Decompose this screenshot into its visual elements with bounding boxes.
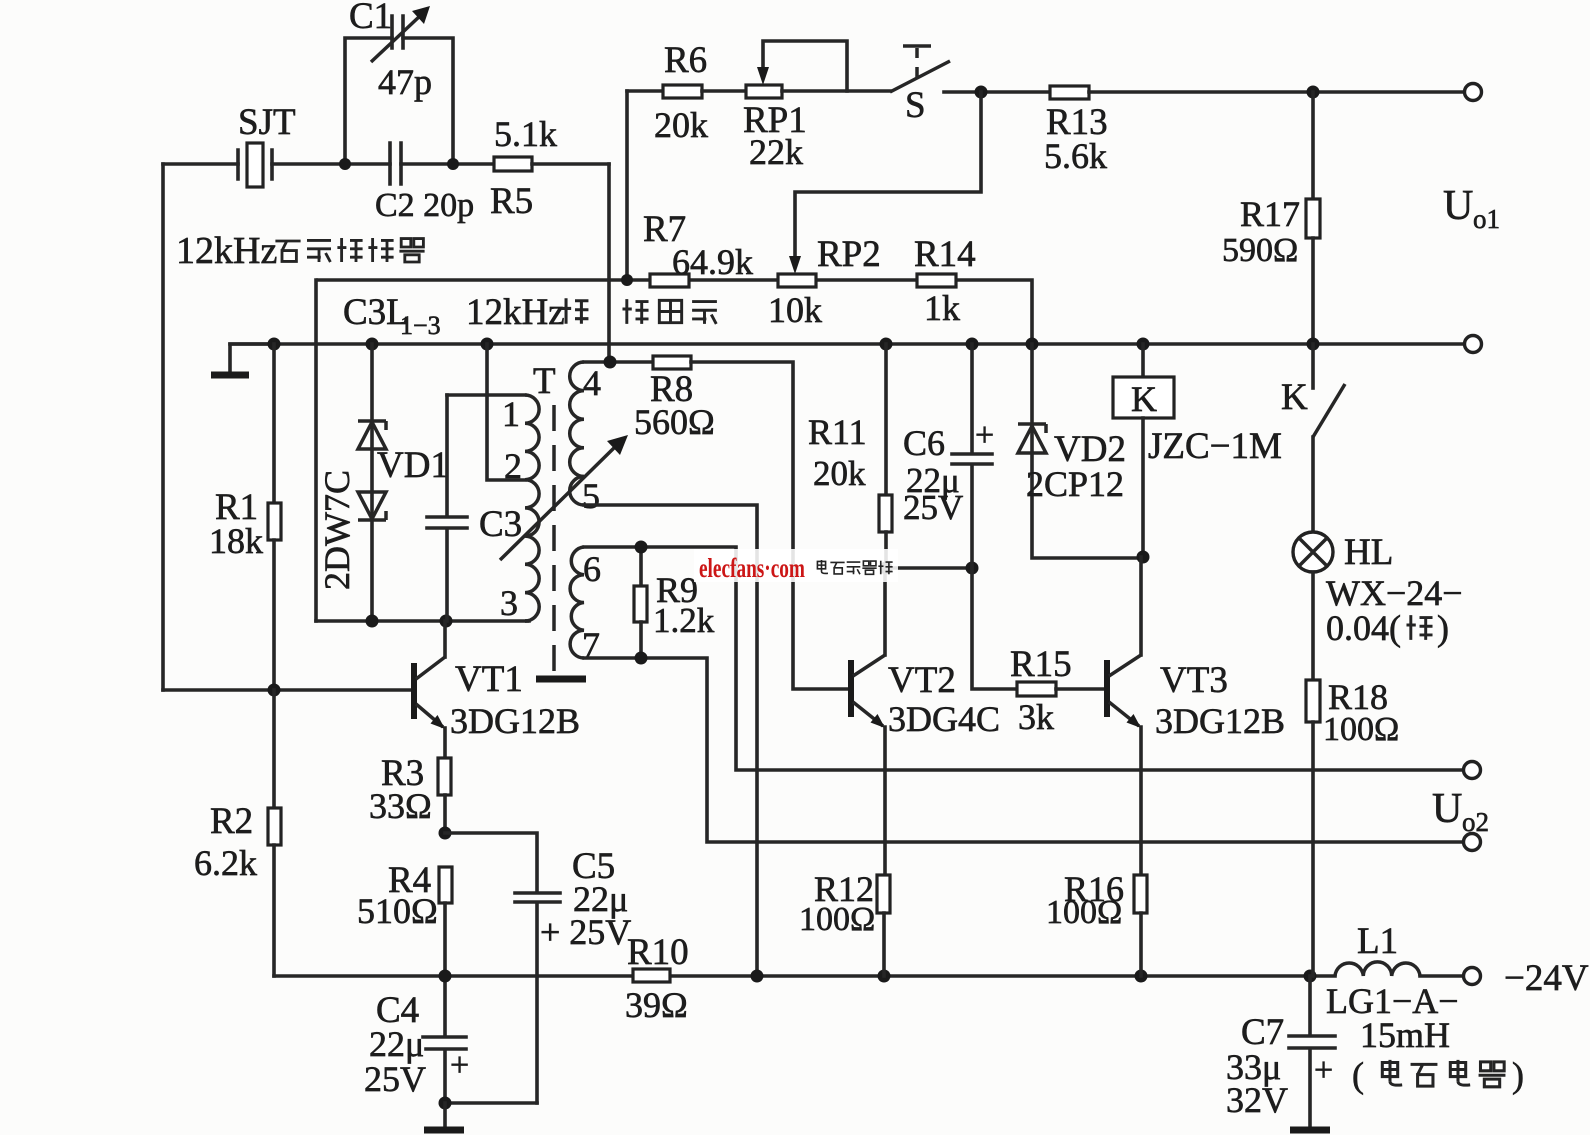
resistor R10 39 ohm: [625, 932, 689, 1025]
node: switch output: [975, 86, 988, 99]
svg-text:R5: R5: [490, 181, 533, 222]
transformer T primary winding pins 1-2-3: [500, 361, 556, 623]
svg-text:1.2k: 1.2k: [653, 601, 715, 640]
resistor R14 1k: [914, 234, 976, 328]
svg-text:25V: 25V: [903, 488, 963, 527]
resistor R7 64.9k: [643, 209, 753, 287]
node: C2 left junction: [339, 158, 351, 170]
wire: bus to coil tap: [487, 344, 525, 480]
capacitor C2 20p: [375, 143, 494, 224]
node: C2 right junction: [447, 158, 459, 170]
svg-text:R14: R14: [914, 234, 976, 275]
svg-text:VT1: VT1: [455, 659, 523, 700]
wire: crystal to C1/C2 node: [272, 162, 390, 166]
svg-text:3DG12B: 3DG12B: [450, 701, 580, 741]
svg-text:K: K: [1131, 379, 1157, 419]
svg-text:U: U: [1432, 786, 1462, 832]
svg-text:22μ: 22μ: [369, 1024, 424, 1064]
lamp HL WX-24-0.04: [1293, 532, 1463, 648]
wire: R8 to VT2 base: [691, 362, 849, 689]
svg-text:2: 2: [504, 446, 522, 486]
wire: main bus y=344: [230, 342, 1464, 346]
potentiometer RP1 22k: [702, 41, 890, 172]
label: color-code inductor (CJK): [1352, 1055, 1524, 1095]
label: 12kHz quartz resonator (CJK): [176, 230, 425, 272]
svg-text:6.2k: 6.2k: [194, 843, 257, 883]
node: R17 top: [1307, 86, 1320, 99]
resistor R15 3k: [1010, 644, 1106, 737]
svg-text:JZC−1M: JZC−1M: [1148, 426, 1282, 467]
svg-text:560Ω: 560Ω: [634, 402, 715, 442]
terminal Uo1: [1443, 84, 1500, 235]
svg-text:3DG4C: 3DG4C: [888, 699, 1000, 739]
svg-text:+: +: [975, 417, 994, 454]
transformer secondary winding pins 4-5: [570, 362, 601, 516]
svg-text:−24V: −24V: [1504, 958, 1589, 999]
switch S: [890, 46, 1050, 126]
zener VD2 2CP12: [1018, 344, 1143, 558]
svg-text:C1: C1: [349, 0, 392, 37]
wire: vertical from R5 down to pin4 line: [607, 164, 611, 361]
svg-text:1: 1: [502, 394, 520, 434]
svg-text:K: K: [1281, 377, 1308, 418]
terminal: Uo2 lower: [1432, 786, 1489, 851]
svg-text:+: +: [1314, 1052, 1333, 1089]
capacitor C4 22u 25V: [364, 976, 469, 1103]
wire: -24V bottom bus: [274, 974, 1464, 978]
svg-text:3DG12B: 3DG12B: [1155, 701, 1285, 741]
svg-text:6: 6: [583, 549, 601, 589]
svg-text:100Ω: 100Ω: [1046, 894, 1122, 931]
svg-text:10k: 10k: [768, 290, 822, 330]
svg-text:C6: C6: [903, 423, 945, 463]
svg-text:1−3: 1−3: [400, 311, 441, 340]
svg-text:WX−24−: WX−24−: [1326, 573, 1463, 613]
svg-text:5.6k: 5.6k: [1044, 136, 1107, 176]
svg-text:3k: 3k: [1018, 697, 1054, 737]
resistor R18 100 ohm: [1306, 572, 1399, 976]
transistor VT2 3DG4C: [851, 568, 1000, 875]
transistor VT3 3DG12B: [1107, 557, 1285, 875]
resistor R8 560 ohm: [634, 356, 715, 442]
resistor R5 5.1k: [490, 114, 557, 222]
terminal: bus right: [1465, 336, 1482, 353]
wire: C6 line down to R15: [972, 568, 1017, 689]
svg-text:): ): [1437, 608, 1449, 648]
svg-text:L1: L1: [1357, 921, 1398, 962]
capacitor C1 (variable, 47p): [345, 0, 453, 164]
wire: C4/C5 bottom tie: [445, 1101, 537, 1105]
resistor R11 20k: [808, 344, 892, 568]
svg-text:22k: 22k: [749, 132, 803, 172]
svg-text:12kHz: 12kHz: [466, 292, 565, 333]
node: R9 ends: [635, 541, 648, 554]
svg-text:+ 25V: + 25V: [540, 912, 631, 952]
terminal: Uo2 upper: [1464, 762, 1481, 779]
node: VT1 base / R1 R2: [268, 684, 281, 697]
svg-text:T: T: [533, 361, 556, 402]
svg-text:510Ω: 510Ω: [357, 891, 438, 931]
transformer core (dashed) with shield ground: [536, 405, 586, 679]
svg-text:VT2: VT2: [888, 660, 956, 701]
svg-text:R17: R17: [1240, 194, 1300, 234]
svg-text:5.1k: 5.1k: [494, 114, 557, 154]
svg-text:R10: R10: [627, 932, 689, 973]
potentiometer RP2 10k: [768, 234, 881, 330]
svg-text:5: 5: [582, 476, 600, 516]
svg-text:15mH: 15mH: [1360, 1015, 1450, 1055]
terminal: -24V: [1464, 958, 1589, 999]
svg-text:C2 20p: C2 20p: [375, 187, 474, 224]
svg-text:elecfans·com: elecfans·com: [699, 553, 805, 583]
node: bottom bus junctions: [439, 970, 452, 983]
capacitor C3: [427, 395, 522, 621]
wire: RP2 wiper loop from switch node: [795, 92, 981, 258]
transformer tuning arrow: [500, 435, 628, 560]
node: VD2/relay/VT3 collector: [1137, 551, 1150, 564]
svg-text:VD1: VD1: [377, 445, 449, 486]
crystal SJT: [238, 102, 296, 187]
svg-text:4: 4: [583, 363, 601, 403]
ground: under C7: [1290, 1127, 1330, 1134]
wire: pin7 line to Uo2 lower: [584, 658, 1464, 842]
svg-text:32V: 32V: [1226, 1080, 1288, 1120]
resistor R9 1.2k: [634, 547, 715, 658]
capacitor C6 22u 25V: [903, 344, 994, 568]
resistor R4 510 ohm: [357, 860, 452, 976]
node: bus junctions: [268, 338, 281, 351]
wire: C3 top to coil pin1: [447, 393, 525, 397]
svg-text:100Ω: 100Ω: [799, 901, 875, 938]
wire: R13 to Uo1 terminal: [1089, 90, 1464, 94]
svg-text:SJT: SJT: [238, 102, 296, 143]
switch K (relay contact): [1281, 344, 1345, 532]
svg-text:25V: 25V: [364, 1059, 426, 1099]
svg-text:RP2: RP2: [817, 234, 881, 275]
resistor R17 590 ohm: [1222, 92, 1320, 344]
resistor R16 100 ohm: [1046, 869, 1147, 976]
wire: R7 line (box top edge) across: [689, 280, 1032, 344]
svg-text:o2: o2: [1462, 807, 1489, 837]
transformer secondary winding pins 6-7: [570, 547, 601, 665]
wire: VD1/C3/pin3 bottom rail: [316, 619, 529, 623]
watermark elecfans: [694, 549, 898, 583]
svg-text:2CP12: 2CP12: [1026, 464, 1124, 504]
resistor R2 6.2k: [194, 690, 281, 976]
svg-text:64.9k: 64.9k: [672, 242, 753, 282]
resistor R6 20k: [627, 40, 708, 145]
transistor VT1 3DG12B: [163, 621, 580, 758]
svg-text:): ): [1512, 1055, 1524, 1095]
svg-text:12kHz: 12kHz: [176, 230, 277, 272]
node: R3/R4/C5: [439, 827, 452, 840]
svg-text:C3: C3: [479, 504, 522, 545]
wire: pin6 line to Uo2 upper: [584, 547, 1464, 770]
inductor L1 LG1-A-15mH: [1326, 921, 1459, 1055]
svg-text:20k: 20k: [654, 105, 708, 145]
resistor R1 18k: [209, 344, 281, 690]
svg-text:R2: R2: [210, 801, 253, 842]
svg-text:590Ω: 590Ω: [1222, 232, 1298, 269]
wire: SJT feed: [163, 162, 238, 166]
svg-text:o1: o1: [1473, 204, 1500, 234]
resistor R12 100 ohm: [799, 869, 890, 976]
svg-text:R11: R11: [808, 412, 867, 452]
zener VD1 2DW7C (dual): [317, 344, 449, 621]
svg-text:S: S: [905, 85, 926, 126]
relay coil K JZC-1M: [1113, 344, 1282, 557]
ground: under C4: [424, 1103, 464, 1130]
svg-text:R6: R6: [664, 40, 707, 81]
svg-text:39Ω: 39Ω: [625, 985, 688, 1025]
svg-text:20k: 20k: [813, 454, 866, 493]
svg-text:18k: 18k: [209, 521, 263, 561]
svg-text:(: (: [1352, 1055, 1364, 1095]
wire: R11/VT2 collector to C6: [886, 566, 972, 570]
wire: top-left loop from SJT line down left side: [161, 164, 165, 690]
capacitor C7 33u 32V: [1226, 976, 1335, 1127]
wire: pin5 line down to -24V bus: [584, 505, 757, 976]
ground: top-left: [211, 344, 274, 375]
svg-text:U: U: [1443, 183, 1473, 229]
svg-text:2DW7C: 2DW7C: [317, 470, 357, 590]
svg-text:VT3: VT3: [1160, 660, 1228, 701]
svg-text:0.04(: 0.04(: [1326, 608, 1401, 648]
svg-text:33Ω: 33Ω: [369, 786, 432, 826]
wire: pin4 line to R8: [584, 360, 653, 364]
svg-text:47p: 47p: [378, 62, 432, 102]
svg-text:HL: HL: [1344, 532, 1393, 573]
svg-text:R15: R15: [1010, 644, 1072, 685]
wire: R6 branch vertical: [625, 91, 629, 280]
svg-text:C3L: C3L: [343, 292, 409, 333]
svg-text:1k: 1k: [924, 288, 960, 328]
label box: C3L1-3 12kHz resonant loop: [316, 280, 717, 621]
svg-text:+: +: [450, 1047, 469, 1084]
resistor R3 33 ohm: [369, 753, 451, 833]
wire: R5 to down corner: [532, 162, 609, 166]
capacitor C5 22u 25V: [445, 833, 631, 1103]
resistor R13 5.6k: [1044, 86, 1108, 176]
svg-text:3: 3: [500, 583, 518, 623]
svg-text:100Ω: 100Ω: [1323, 711, 1399, 748]
